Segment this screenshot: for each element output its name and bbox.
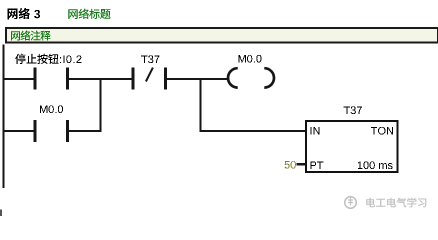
- wire: branch junction down to timer IN: [199, 79, 201, 131]
- timer U1: T37 TON box: [306, 106, 398, 172]
- contact M0.0 (normally open, parallel branch): [33, 105, 69, 142]
- wire: contact M0.0 to junction: [69, 130, 102, 132]
- wire: PT input stub: [297, 163, 307, 165]
- wire: parallel branch junction (down to M0.0 rung): [99, 79, 101, 131]
- wire: rail to contact M0.0: [3, 130, 35, 132]
- contact 停止按钮:I0.2 (normally open): [15, 54, 81, 90]
- network title text 网络标题: [68, 9, 110, 19]
- wire: rail to contact I0.2: [3, 78, 35, 80]
- edge mark bottom left: [0, 210, 2, 217]
- PT preset value 50: [285, 161, 296, 169]
- network comment box 网络注释: [6, 28, 438, 43]
- wire: contact I0.2 to contact T37: [69, 78, 133, 80]
- wire: contact T37 to coil: [167, 78, 230, 80]
- watermark text 电工电气学习: [366, 198, 426, 208]
- contact T37 (normally closed): [132, 55, 168, 89]
- network header label 网络 3: [7, 8, 40, 19]
- left power rail: [2, 45, 4, 189]
- watermark logo circle: [345, 197, 357, 209]
- wire: junction to timer box IN: [199, 130, 305, 132]
- coil M0.0 (output): [228, 55, 274, 88]
